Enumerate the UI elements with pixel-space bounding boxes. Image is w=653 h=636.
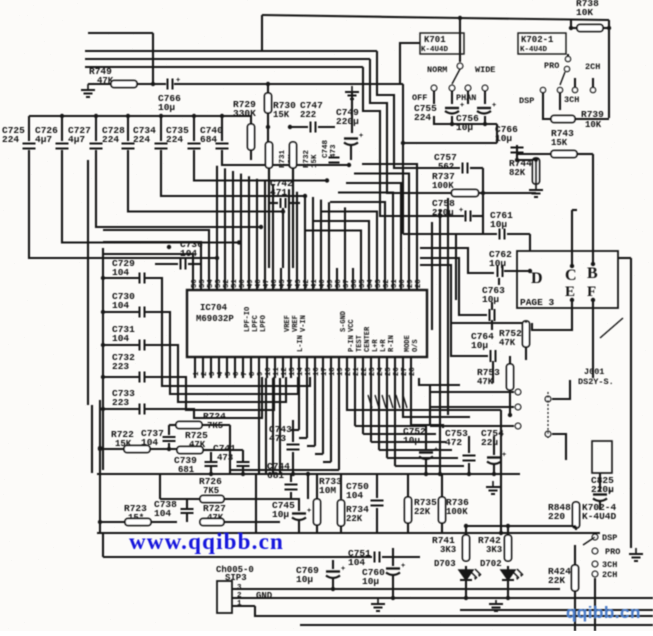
svg-text:LPFO: LPFO: [260, 315, 268, 332]
svg-text:53: 53: [215, 279, 223, 288]
svg-text:2: 2: [201, 372, 209, 376]
svg-text:224: 224: [414, 112, 431, 123]
svg-text:33: 33: [375, 279, 383, 288]
svg-text:22K: 22K: [414, 507, 431, 517]
svg-text:4µ7: 4µ7: [35, 134, 52, 145]
svg-text:20: 20: [345, 367, 353, 376]
svg-text:24: 24: [377, 367, 385, 376]
svg-text:47: 47: [263, 279, 271, 288]
svg-text:35: 35: [359, 279, 367, 288]
svg-text:222: 222: [300, 110, 316, 120]
svg-text:+: +: [401, 563, 405, 571]
svg-text:7: 7: [241, 372, 249, 376]
svg-text:+: +: [459, 207, 463, 215]
svg-text:14: 14: [297, 367, 305, 376]
svg-text:4: 4: [217, 371, 225, 376]
svg-text:10µ: 10µ: [296, 574, 313, 585]
svg-text:8: 8: [249, 372, 257, 376]
svg-text:52: 52: [223, 279, 231, 288]
svg-text:104: 104: [346, 490, 363, 501]
svg-text:3CH: 3CH: [602, 560, 617, 570]
svg-text:18: 18: [329, 367, 337, 376]
svg-text:6: 6: [233, 372, 241, 376]
svg-text:15K: 15K: [311, 154, 319, 168]
svg-text:104: 104: [154, 508, 171, 519]
svg-text:10K: 10K: [576, 7, 593, 18]
svg-text:1: 1: [193, 371, 201, 376]
svg-text:29: 29: [407, 279, 415, 288]
svg-text:32: 32: [383, 279, 391, 288]
svg-text:10µ: 10µ: [362, 576, 379, 587]
svg-text:473: 473: [269, 433, 286, 444]
svg-text:26: 26: [393, 367, 401, 376]
svg-text:46: 46: [271, 279, 279, 288]
svg-text:10K: 10K: [585, 120, 602, 130]
svg-text:R-IN: R-IN: [388, 335, 396, 352]
svg-text:GND: GND: [256, 591, 273, 601]
svg-text:224: 224: [102, 134, 119, 145]
svg-text:R731: R731: [279, 149, 287, 168]
svg-text:+: +: [608, 489, 612, 497]
svg-text:CENTER: CENTER: [364, 326, 372, 352]
svg-text:10: 10: [265, 367, 273, 376]
svg-text:220: 220: [548, 511, 565, 522]
svg-text:15K: 15K: [551, 138, 568, 148]
svg-text:45: 45: [279, 279, 287, 288]
svg-text:22µ: 22µ: [481, 437, 498, 448]
svg-text:R732: R732: [303, 149, 311, 168]
svg-text:10µ: 10µ: [482, 294, 499, 305]
svg-text:684: 684: [200, 134, 217, 145]
svg-text:22: 22: [361, 367, 369, 376]
svg-text:S-GND: S-GND: [340, 311, 348, 332]
svg-text:K-4U4D: K-4U4D: [582, 511, 617, 522]
svg-text:V-IN: V-IN: [300, 315, 308, 332]
svg-text:220µ: 220µ: [336, 116, 359, 127]
svg-text:+: +: [307, 508, 311, 516]
svg-text:54: 54: [207, 279, 215, 288]
svg-text:19: 19: [337, 367, 345, 376]
svg-text:50: 50: [239, 279, 247, 288]
svg-text:+: +: [341, 566, 345, 574]
svg-text:10µ: 10µ: [272, 509, 289, 520]
svg-text:224: 224: [166, 134, 183, 145]
svg-text:27: 27: [401, 367, 409, 376]
svg-text:22K: 22K: [346, 514, 363, 524]
svg-text:38: 38: [335, 279, 343, 288]
svg-text:OFF: OFF: [412, 93, 427, 103]
svg-text:39: 39: [327, 279, 335, 288]
svg-text:47K: 47K: [499, 338, 516, 348]
svg-text:56: 56: [191, 279, 199, 288]
svg-text:28: 28: [409, 367, 417, 376]
svg-text:IC704: IC704: [200, 303, 228, 313]
svg-text:104: 104: [112, 300, 129, 311]
svg-text:100K: 100K: [446, 507, 468, 517]
svg-text:43: 43: [295, 279, 303, 288]
svg-text:+: +: [502, 452, 506, 460]
svg-text:11: 11: [273, 367, 281, 376]
svg-text:21: 21: [353, 367, 361, 376]
svg-text:42: 42: [303, 279, 311, 288]
svg-text:qqibb.cn: qqibb.cn: [566, 603, 641, 622]
svg-text:NORM: NORM: [427, 65, 447, 75]
svg-text:23: 23: [369, 367, 377, 376]
svg-text:DSP: DSP: [519, 96, 534, 106]
svg-text:47K: 47K: [477, 377, 494, 387]
svg-text:12: 12: [281, 367, 289, 376]
svg-text:3CH: 3CH: [564, 95, 579, 105]
svg-text:17: 17: [321, 367, 329, 376]
svg-text:15: 15: [305, 367, 313, 376]
svg-text:TEST: TEST: [356, 335, 364, 352]
svg-text:224: 224: [133, 134, 150, 145]
svg-text:PAGE 3: PAGE 3: [520, 297, 555, 308]
svg-text:10µ: 10µ: [490, 219, 507, 230]
svg-text:PRO: PRO: [605, 547, 620, 557]
svg-text:100K: 100K: [432, 181, 454, 191]
svg-text:31: 31: [391, 279, 399, 288]
svg-text:VCC: VCC: [348, 319, 356, 332]
svg-text:34: 34: [367, 279, 375, 288]
svg-text:www.qqibb.cn: www.qqibb.cn: [129, 529, 284, 554]
svg-text:VREF: VREF: [292, 315, 300, 332]
svg-text:22K: 22K: [548, 575, 565, 586]
svg-text:2CH: 2CH: [602, 570, 617, 580]
svg-text:15K: 15K: [273, 110, 290, 120]
svg-text:MODE: MODE: [404, 335, 412, 352]
svg-text:25: 25: [385, 367, 393, 376]
svg-text:40: 40: [319, 279, 327, 288]
svg-text:DSP: DSP: [602, 533, 617, 543]
svg-text:4µ7: 4µ7: [68, 134, 85, 145]
svg-text:104: 104: [141, 437, 158, 448]
svg-text:473: 473: [217, 453, 233, 463]
svg-text:D702: D702: [480, 559, 502, 569]
svg-text:37: 37: [343, 279, 351, 288]
svg-text:44: 44: [287, 279, 295, 288]
svg-text:16: 16: [313, 367, 321, 376]
svg-text:10µ: 10µ: [158, 102, 175, 113]
svg-text:681: 681: [267, 470, 284, 481]
svg-text:223: 223: [112, 361, 129, 372]
svg-text:K701: K701: [424, 35, 446, 45]
svg-text:48: 48: [255, 279, 263, 288]
svg-text:10µ: 10µ: [495, 133, 512, 144]
svg-text:36: 36: [351, 279, 359, 288]
svg-text:49: 49: [247, 279, 255, 288]
svg-text:9: 9: [257, 372, 265, 376]
svg-text:10µ: 10µ: [471, 340, 488, 351]
svg-text:K702-1: K702-1: [521, 35, 554, 45]
svg-text:M69032P: M69032P: [196, 314, 234, 324]
svg-text:B: B: [587, 265, 598, 282]
svg-text:+: +: [492, 102, 496, 110]
svg-text:L-IN: L-IN: [297, 335, 305, 352]
svg-text:10µ: 10µ: [403, 435, 420, 446]
svg-text:+: +: [460, 102, 464, 110]
svg-text:C: C: [565, 267, 577, 284]
svg-text:O/S: O/S: [412, 339, 420, 352]
svg-text:F: F: [587, 284, 596, 300]
svg-text:D703: D703: [434, 559, 456, 569]
svg-text:330K: 330K: [233, 108, 256, 119]
svg-text:LPFC: LPFC: [252, 315, 260, 332]
svg-text:55: 55: [199, 279, 207, 288]
svg-text:82K: 82K: [509, 168, 526, 178]
svg-text:51: 51: [231, 279, 239, 288]
svg-text:+: +: [359, 133, 363, 141]
svg-text:41: 41: [311, 279, 319, 288]
svg-text:28: 28: [415, 279, 423, 288]
svg-text:WIDE: WIDE: [475, 65, 495, 75]
svg-text:3K3: 3K3: [486, 545, 502, 555]
svg-text:DS2Y-S.: DS2Y-S.: [578, 377, 614, 387]
svg-text:K-4U4D: K-4U4D: [421, 46, 449, 54]
svg-text:5: 5: [225, 372, 233, 376]
svg-text:473: 473: [330, 144, 338, 158]
svg-text:K-4U4D: K-4U4D: [520, 46, 548, 54]
svg-text:P-IN: P-IN: [348, 335, 356, 352]
svg-text:13: 13: [289, 367, 297, 376]
svg-text:104: 104: [112, 267, 129, 278]
svg-text:224: 224: [2, 134, 19, 145]
svg-text:LPF-IO: LPF-IO: [244, 307, 252, 332]
svg-text:C748: C748: [322, 139, 330, 158]
svg-text:472: 472: [445, 437, 462, 448]
svg-text:L+R: L+R: [380, 339, 388, 352]
svg-text:223: 223: [112, 397, 129, 408]
svg-text:J001: J001: [584, 367, 604, 377]
svg-text:30: 30: [399, 279, 407, 288]
svg-text:VREF: VREF: [284, 315, 292, 332]
svg-text:3: 3: [209, 372, 217, 376]
svg-text:3K3: 3K3: [440, 545, 456, 555]
svg-text:10M: 10M: [319, 485, 336, 496]
svg-text:L+R: L+R: [372, 339, 380, 352]
svg-text:E: E: [565, 284, 575, 300]
svg-text:PRO: PRO: [544, 61, 559, 71]
svg-text:2CH: 2CH: [585, 62, 600, 72]
svg-text:D: D: [531, 270, 543, 287]
svg-text:104: 104: [112, 333, 129, 344]
svg-text:7K5: 7K5: [203, 486, 219, 496]
